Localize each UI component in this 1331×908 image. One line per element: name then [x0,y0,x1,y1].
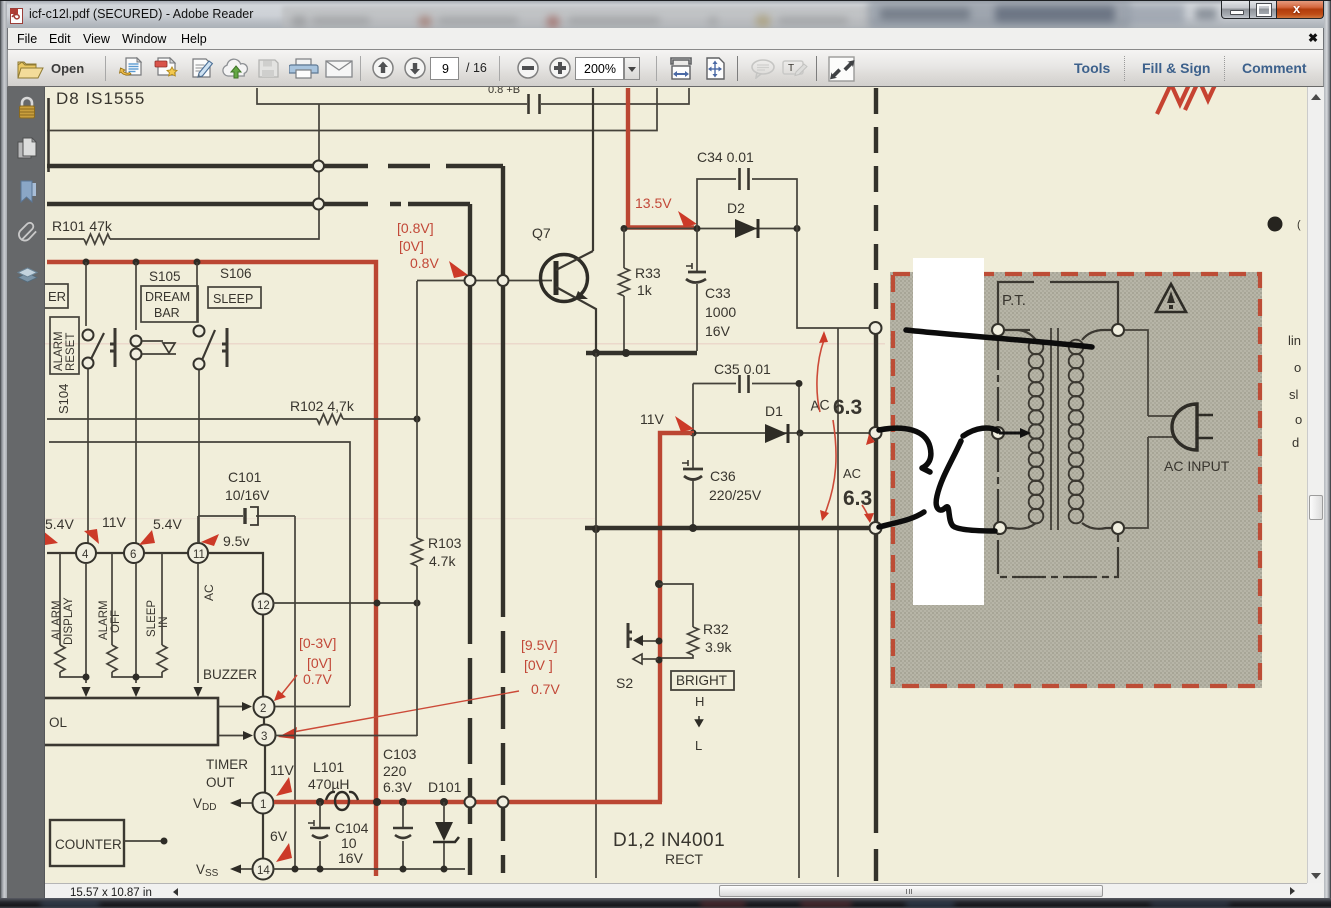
node rings on base wire [465,275,476,286]
svg-text:16V: 16V [338,850,364,866]
svg-text:C33: C33 [705,285,731,301]
transformer frame [998,282,1118,577]
svg-text:6V: 6V [270,828,288,844]
transformer secondary winding [1069,340,1084,524]
svg-text:S104: S104 [56,384,71,414]
svg-text:12: 12 [257,600,270,612]
capacitor C104 10 16V [319,802,321,869]
svg-text:D2: D2 [727,200,745,216]
pin 2 net [275,706,350,708]
svg-text:0.8 +B: 0.8 +B [488,87,520,96]
svg-text:S106: S106 [220,266,252,281]
svg-text:D1,2 IN4001: D1,2 IN4001 [613,830,725,851]
pdf create with star [154,57,180,81]
svg-text:o: o [1295,412,1302,427]
svg-text:ER: ER [48,289,66,304]
Q7 base wire [417,280,552,282]
resistor R103 4.7k [412,538,423,566]
pin 3 [255,725,276,746]
svg-text:4: 4 [82,549,89,561]
svg-text:R103: R103 [428,535,462,551]
page-edge cut wire stub [47,98,50,172]
white correction rectangle [913,258,984,605]
capacitor C36 220/25V [692,433,694,526]
svg-text:11V: 11V [102,514,127,530]
pin rail [47,552,198,554]
AC input wires [1118,330,1148,528]
wire 13.5V rail [622,228,797,230]
svg-text:3.9k: 3.9k [705,639,732,655]
marker stroke from mid ring [879,428,931,472]
capacitor C33 1000 16V [696,228,698,351]
svg-text:[0.8V]: [0.8V] [397,220,434,236]
svg-text:ALARM: ALARM [53,331,65,371]
svg-text:S2: S2 [616,675,633,691]
svg-text:3: 3 [261,731,267,743]
red overlay box (alarm section) [47,262,376,876]
svg-text:BAR: BAR [154,306,180,320]
warning triangle [1156,284,1186,312]
zoom out [517,57,539,79]
thin vertical net [837,328,839,877]
P.T. halftone gray box [890,272,1262,688]
svg-text:220/25V: 220/25V [709,487,762,503]
svg-text:OUT: OUT [206,775,235,790]
COUNTER box [50,820,124,866]
svg-text:11V: 11V [270,762,295,778]
pin 1 [253,793,274,814]
printer [289,58,319,80]
svg-text:11V: 11V [640,411,665,427]
lock icon [18,96,36,120]
crossing rings on buses [313,161,324,172]
ALARM RESET box [50,317,79,374]
svg-text:R33: R33 [635,265,661,281]
svg-text:lin: lin [1288,333,1301,348]
svg-text:BUZZER: BUZZER [203,667,257,682]
black registration dot [1268,217,1283,232]
wire top step (net to off-page) [257,88,689,104]
switch S105 (slide) [135,262,137,330]
layers icon [17,265,38,286]
pin 2 [254,697,275,718]
AC top wire to transformer [797,228,871,328]
R103 net vertical [416,281,418,736]
svg-text:1: 1 [260,799,266,811]
pin 12 net [273,602,417,604]
red dashed border of P.T. box [893,274,1260,686]
svg-text:0.7V: 0.7V [303,671,332,687]
svg-text:S105: S105 [149,269,181,284]
svg-text:11: 11 [193,549,205,561]
floppy disabled [257,58,280,79]
disabled comment bubble [750,59,776,79]
AC plug symbol [1172,404,1197,450]
BRIGHT label [671,671,734,690]
junction dots on red box top [83,259,90,266]
pin 12 [253,594,274,615]
svg-text:C35 0.01: C35 0.01 [714,361,771,377]
R32 link to red rail [655,580,663,588]
svg-text:R101 47k: R101 47k [52,218,113,234]
arrows into IC [82,687,91,697]
marker stroke to transformer tap [963,428,998,436]
capacitor C31 [529,94,540,114]
VDD red rail [274,800,662,804]
svg-text:[9.5V]: [9.5V] [521,637,558,653]
svg-text:C34 0.01: C34 0.01 [697,149,754,165]
bus wire 2 (thick, dashed to right) [47,202,470,206]
BUZZER partial box ER [40,284,68,308]
svg-text:T: T [788,63,794,74]
pulldown resistors [59,553,61,645]
svg-text:5.4V: 5.4V [45,516,74,532]
bookmark icon [20,180,37,204]
emitter net vertical [595,353,597,878]
svg-text:SLEEP: SLEEP [213,292,253,306]
fit width [669,57,693,80]
save-as doc with arrow [119,57,145,80]
svg-text:C36: C36 [710,468,736,484]
transformer primary winding [1029,340,1044,524]
svg-text:16V: 16V [705,323,731,339]
red WW watermark [1157,72,1221,114]
curved arrow up/down [817,340,836,516]
svg-text:2: 2 [260,703,266,715]
svg-text:[0V]: [0V] [307,655,332,671]
svg-text:10: 10 [341,835,357,851]
svg-text:0.8V: 0.8V [410,255,439,271]
svg-text:(: ( [1297,219,1301,231]
svg-text:ALARM: ALARM [51,600,63,640]
rings where AC lines cross fold [870,322,882,334]
transformer tap arrow [999,432,1022,435]
window buttons [1221,0,1324,19]
svg-text:6.3: 6.3 [833,396,862,419]
buzzer net wire [49,442,350,706]
svg-text:[0V ]: [0V ] [524,657,553,673]
svg-text:BRIGHT: BRIGHT [676,673,727,688]
cloud upload [221,58,251,80]
switch S104 [85,262,87,326]
svg-text:D101: D101 [428,779,462,795]
envelope [325,60,353,78]
svg-text:1k: 1k [637,282,653,298]
open folder [17,57,45,80]
svg-text:C104: C104 [335,820,369,836]
pin 4 [76,543,96,563]
IC box (controller) [40,698,218,745]
svg-text:0.7V: 0.7V [531,681,560,697]
svg-text:AC INPUT: AC INPUT [1164,458,1230,474]
long red pointer to pin 3 [293,691,519,732]
svg-text:R32: R32 [703,621,729,637]
switch S2 [628,623,632,648]
svg-text:COUNTER: COUNTER [55,837,122,852]
svg-text:RESET: RESET [65,333,77,371]
fold line (dashed page boundary) [874,88,878,322]
arrows to pins 2,3 [218,707,243,736]
svg-text:H: H [695,694,704,709]
svg-text:RECT: RECT [665,851,704,867]
svg-text:AC: AC [202,584,216,601]
VSS rail [273,868,465,870]
svg-text:L: L [695,738,702,753]
svg-text:6: 6 [130,549,136,561]
11V red trace [660,433,694,802]
main IC vertical rail [208,553,263,594]
resistor R33 1k [623,228,625,268]
wire second top line [47,88,657,131]
marker stroke S-curve [936,441,995,531]
13.5V red trace [628,88,694,228]
svg-text:DREAM: DREAM [145,290,190,304]
bus wire B+ (thick, dashed to right) [47,164,503,168]
sign pencil [189,57,215,80]
svg-text:IN: IN [158,617,170,629]
svg-text:[0-3V]: [0-3V] [299,635,336,651]
svg-text:9.5v: 9.5v [223,533,249,549]
svg-text:1000: 1000 [705,304,736,320]
svg-text:AC: AC [843,466,861,481]
svg-text:C101: C101 [228,469,262,485]
pdf app icon [8,8,25,24]
svg-text:L101: L101 [313,759,344,775]
svg-text:Q7: Q7 [532,225,551,241]
svg-text:sl: sl [1289,387,1299,402]
svg-text:P.T.: P.T. [1002,292,1026,309]
svg-text:470µH: 470µH [308,776,350,792]
svg-text:D8 IS1555: D8 IS1555 [56,89,145,108]
transistor Q7 [541,255,588,302]
dashed bus verticals [468,204,472,598]
emitter thick rail [586,351,697,355]
svg-text:DISPLAY: DISPLAY [63,597,75,645]
marker stroke top [906,330,1092,347]
svg-text:14: 14 [257,865,270,877]
pages icon [17,137,38,160]
pin 11 [188,543,208,563]
switch S106 [196,262,198,322]
prev page [372,57,394,79]
svg-text:6.3: 6.3 [843,487,872,510]
resistor R32 3.9k [688,627,699,655]
svg-text:[0V]: [0V] [399,238,424,254]
pin 14 [253,859,274,880]
rings where dashed buses cross VDD [465,797,476,808]
transformer terminal nodes [992,324,1004,336]
svg-text:6.3V: 6.3V [383,779,412,795]
pin 3 net [275,735,417,737]
svg-text:ALARM: ALARM [98,600,110,640]
svg-text:10/16V: 10/16V [225,487,270,503]
svg-text:R102 4,7k: R102 4,7k [290,398,355,414]
svg-text:SLEEP: SLEEP [146,600,158,637]
fullscreen [828,56,855,82]
svg-text:d: d [1292,435,1299,450]
svg-text:5.4V: 5.4V [153,516,182,532]
pin 6 [124,543,144,563]
svg-text:OL: OL [49,715,68,730]
svg-text:220: 220 [383,763,407,779]
AC bottom thick wire [585,526,871,530]
transformer core [1051,328,1058,530]
D1 output vertical [798,433,800,878]
marker stroke bottom left [879,512,924,527]
paperclip icon [16,221,37,249]
svg-text:TIMER: TIMER [206,757,248,772]
svg-text:o: o [1294,360,1301,375]
svg-text:4.7k: 4.7k [429,553,456,569]
svg-text:C103: C103 [383,746,417,762]
svg-text:13.5V: 13.5V [635,195,672,211]
svg-text:D1: D1 [765,403,783,419]
